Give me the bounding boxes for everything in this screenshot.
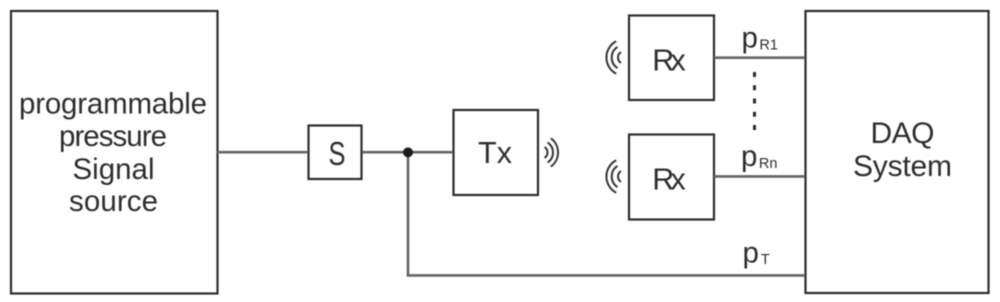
svg-text:System: System <box>853 150 952 183</box>
svg-text:pT: pT <box>743 237 770 270</box>
svg-text:pR1: pR1 <box>742 22 778 55</box>
svg-text:Tx: Tx <box>478 136 512 170</box>
svg-text:pRn: pRn <box>741 140 777 173</box>
svg-text:Signal: Signal <box>73 153 155 186</box>
svg-text:Rx: Rx <box>652 43 686 77</box>
svg-text:pressure: pressure <box>59 120 167 153</box>
svg-text:Rx: Rx <box>652 162 686 196</box>
svg-text:source: source <box>69 185 158 218</box>
svg-text:S: S <box>329 135 346 172</box>
svg-text:DAQ: DAQ <box>871 117 935 150</box>
svg-text:programmable: programmable <box>19 88 207 121</box>
